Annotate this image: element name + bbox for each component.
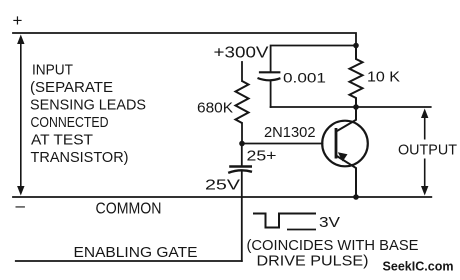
wire enabling gate line — [16, 260, 242, 262]
svg-text:25V: 25V — [205, 177, 240, 194]
wire 0.001 cap top lead — [271, 46, 356, 72]
svg-text:10 K: 10 K — [367, 69, 400, 86]
capacitor C1 0.001 — [258, 72, 281, 80]
svg-text:OUTPUT: OUTPUT — [398, 142, 457, 159]
pulse waveform enabling gate — [253, 214, 316, 228]
svg-text:25+: 25+ — [247, 148, 277, 165]
svg-text:0.001: 0.001 — [283, 71, 326, 86]
svg-text:DRIVE PULSE): DRIVE PULSE) — [257, 253, 369, 270]
input dimension arrow — [17, 35, 24, 196]
resistor R1 680K — [236, 81, 249, 123]
svg-text:2N1302: 2N1302 — [264, 124, 316, 141]
svg-text:CONNECTED: CONNECTED — [31, 114, 109, 131]
svg-text:(SEPARATE: (SEPARATE — [30, 79, 113, 96]
svg-text:680K: 680K — [197, 100, 233, 117]
wire top input rail — [13, 33, 356, 46]
svg-text:+300V: +300V — [214, 45, 270, 62]
node base junction — [239, 141, 245, 147]
output dimension arrow — [421, 109, 428, 196]
svg-text:INPUT: INPUT — [32, 62, 73, 79]
svg-text:ENABLING GATE: ENABLING GATE — [74, 244, 198, 261]
svg-text:AT TEST: AT TEST — [31, 132, 93, 149]
svg-text:+: + — [13, 11, 23, 30]
wire 680K top lead from +300V — [241, 62, 243, 81]
transistor Q1 2N1302 — [322, 107, 368, 197]
svg-text:–: – — [16, 196, 26, 215]
wire collector rail — [271, 106, 431, 108]
node emitter junction — [353, 194, 359, 200]
svg-text:TRANSISTOR): TRANSISTOR) — [31, 149, 129, 166]
node top right junction — [353, 43, 359, 49]
svg-text:3V: 3V — [319, 214, 340, 231]
wire 25V cap top lead — [241, 144, 243, 166]
label INPUT block — [30, 62, 146, 167]
node collector junction — [353, 104, 359, 110]
wire common rail — [13, 196, 431, 198]
svg-text:SENSING LEADS: SENSING LEADS — [30, 97, 146, 114]
wire 25V cap bottom lead through common to gate — [241, 172, 243, 262]
wire 0.001 cap bottom lead — [270, 82, 272, 108]
capacitor C2 25uF electrolytic — [228, 167, 252, 173]
pulse baseline — [287, 229, 316, 231]
wire 680K bottom lead to base node — [241, 123, 243, 144]
resistor R2 10K — [350, 46, 363, 108]
svg-text:(COINCIDES WITH BASE: (COINCIDES WITH BASE — [247, 237, 419, 254]
wire base lead — [242, 143, 323, 145]
svg-text:COMMON: COMMON — [96, 201, 162, 218]
transistor emitter arrow — [338, 152, 348, 161]
svg-text:SeekIC.com: SeekIC.com — [383, 259, 454, 274]
